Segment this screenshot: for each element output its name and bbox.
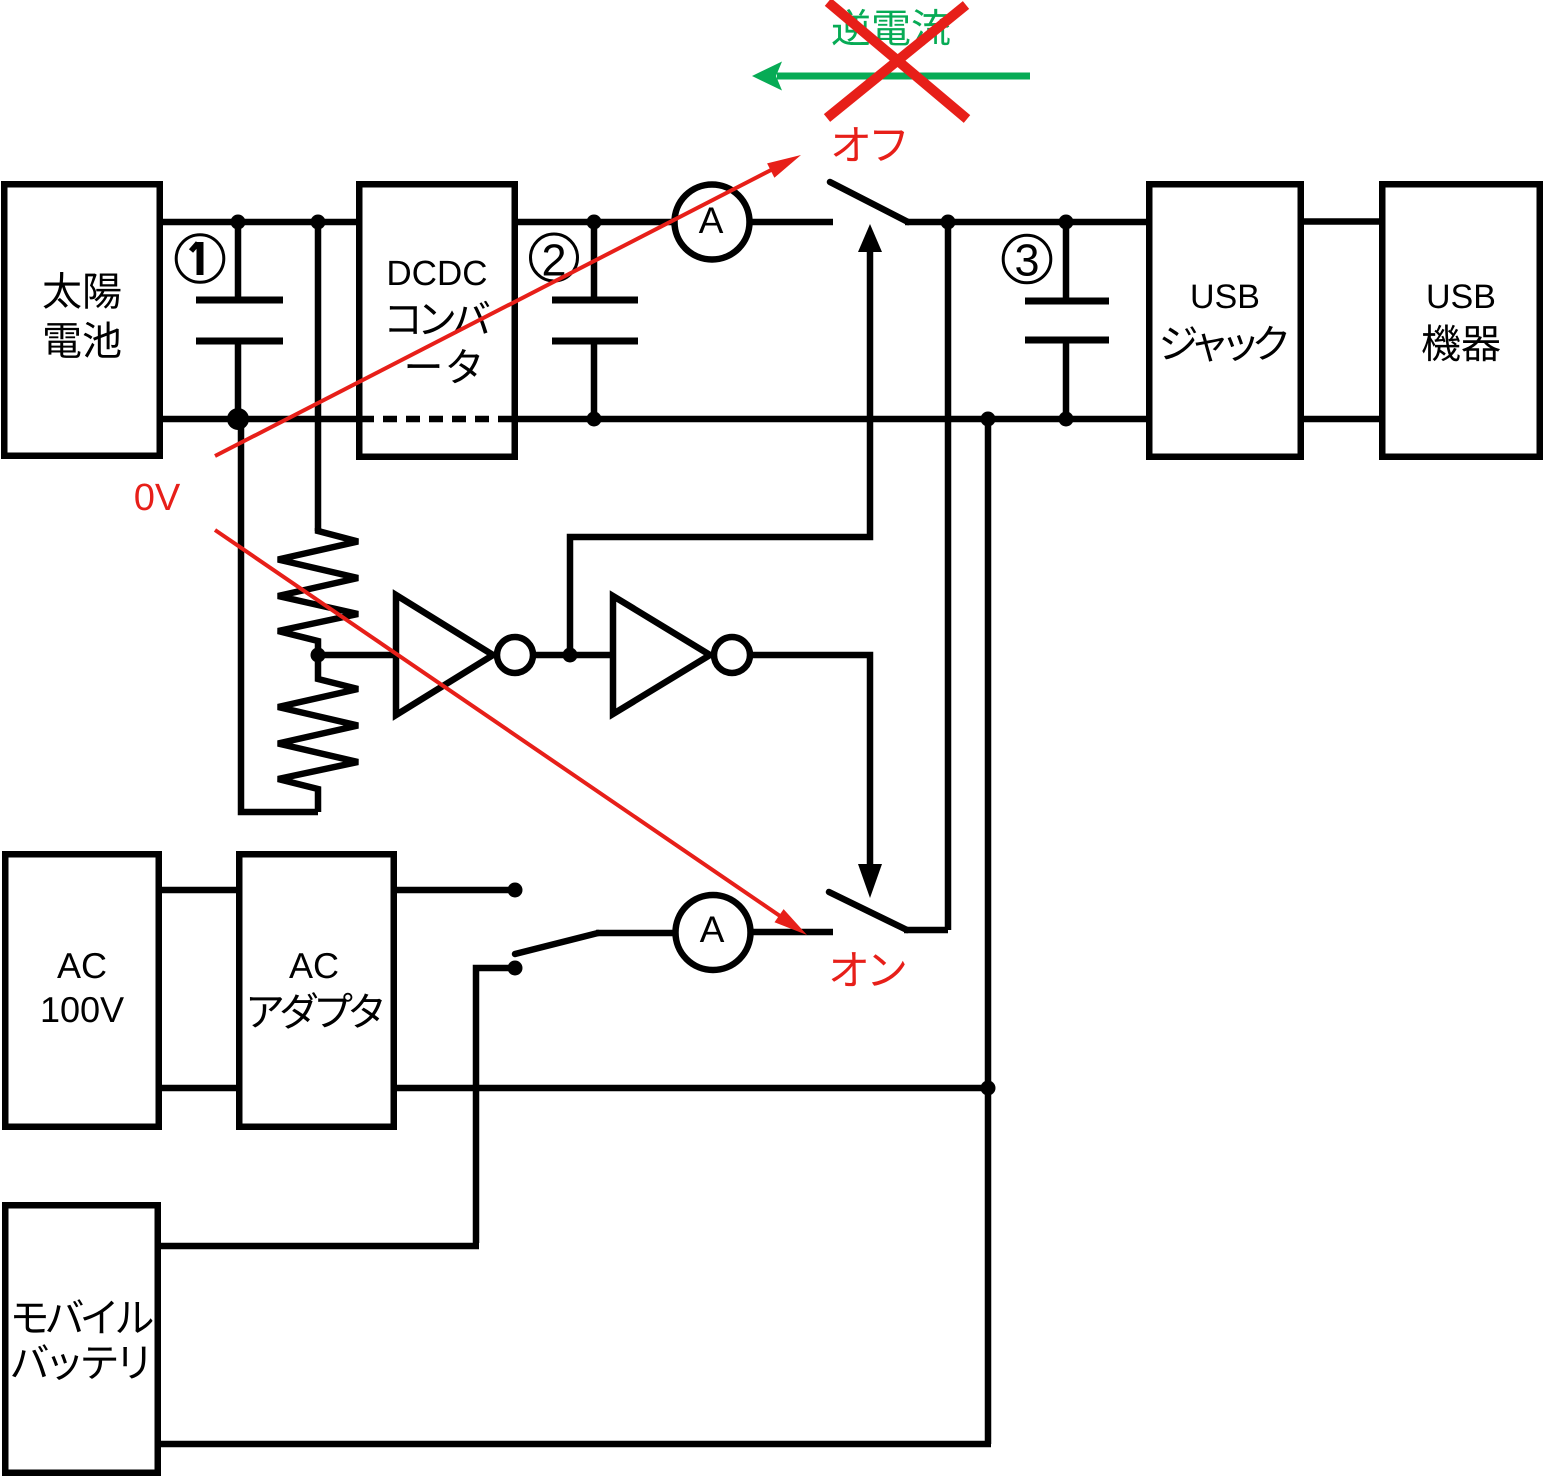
node: junction dots C1: [231, 215, 246, 230]
switch: adapter connect (closing) blade: [829, 892, 907, 930]
wire: ammeter to lower switch left terminal: [750, 929, 833, 936]
capacitor C2 stem bottom: [591, 339, 598, 422]
wire: USB jack to USB device top: [1301, 218, 1382, 225]
block: AC 100V: [5, 854, 159, 1127]
capacitor C1 stem bottom: [235, 339, 242, 422]
wire: resistor bottom return to ground bus: [241, 419, 318, 812]
block: solar cell 太陽電池: [4, 184, 160, 456]
arrow: 0V causes lower switch on (red): [215, 530, 780, 916]
wire: battery contact riser: [476, 968, 515, 1243]
ammeter A top: [675, 185, 750, 260]
wire: tap to inverter U1 input: [315, 652, 399, 659]
label: circled 1: [176, 235, 224, 283]
wire: solar to DCDC top: [160, 219, 360, 226]
wire: adapter bottom out to down-feed rail: [394, 1085, 991, 1092]
wire: ammeter to switch top: [749, 219, 833, 226]
node: divider tap: [311, 648, 326, 663]
wire: U2 output right and down to lower switch: [750, 655, 870, 868]
wire: selector to ammeter: [596, 930, 679, 937]
wire: AC adapter top out to contact: [394, 887, 515, 894]
inverter U1 triangle: [396, 595, 493, 715]
resistor R2 (lower): [278, 655, 358, 812]
node: contact A (adapter): [508, 883, 523, 898]
inverter U2 triangle: [613, 596, 710, 714]
capacitor C1 plates: [196, 297, 283, 304]
arrowhead: control push down on lower switch: [858, 864, 882, 898]
capacitor C1 stem top: [235, 219, 242, 303]
label: reverse current 逆電流 (green): [832, 9, 949, 46]
label: on オン (red): [832, 952, 905, 986]
inverter U2 bubble: [714, 637, 750, 673]
block: USB device USB機器: [1382, 184, 1540, 457]
wire: DCDC to USB jack bottom: [515, 416, 1149, 423]
label: circled 3: [1003, 235, 1051, 283]
capacitor C3 stem top: [1063, 219, 1070, 303]
block: mobile battery モバイルバッテリ: [5, 1205, 158, 1473]
inverter U1 bubble: [497, 637, 533, 673]
block: USB jack: [1149, 184, 1301, 457]
wire: U1 output to U2 input: [533, 652, 616, 659]
switch: output cutoff (open) blade: [830, 182, 908, 222]
wire: AC100V to adapter bottom: [158, 1085, 241, 1092]
ammeter A bottom: [676, 895, 751, 970]
resistor R1 (upper): [278, 528, 358, 655]
wire: bottom bus junction down to battery/adapter rail: [985, 419, 992, 1444]
node: U1 output junction: [563, 648, 578, 663]
arrow: 0V causes top switch off (red): [215, 168, 775, 456]
block: DCDC converter: [359, 184, 515, 457]
cross: red X over reverse current: [828, 2, 967, 119]
wire: solar to DCDC bottom: [160, 416, 360, 423]
wire: switch right terminal down to lower switch: [945, 222, 952, 930]
capacitor C3 plates: [1025, 298, 1109, 305]
arrowhead: control push up on top switch: [858, 224, 882, 252]
wire: dashed ground through DCDC: [360, 416, 515, 423]
wire: blade to vertical: [904, 927, 948, 934]
label: off オフ (red): [834, 127, 905, 161]
wire: DCDC to ammeter top: [515, 219, 676, 226]
wire: battery top out: [158, 1243, 479, 1250]
wire: AC100V to adapter top: [158, 887, 241, 894]
capacitor C2 plates: [552, 297, 638, 304]
label: 0V (red): [135, 483, 180, 510]
arrow: reverse current (green): [777, 73, 1030, 80]
capacitor C3 stem bottom: [1063, 338, 1070, 422]
node: contact B (battery): [508, 961, 523, 976]
wire: vertical to resistor divider: [315, 219, 322, 531]
wire: U1 output feedback up and right to top switch: [570, 248, 870, 655]
wire: battery bottom out: [158, 1441, 991, 1448]
wire: switch to USB jack top: [905, 219, 1149, 226]
block: AC adapter: [239, 854, 394, 1127]
label: circled 2: [531, 234, 578, 281]
switch: source selector blade: [515, 933, 598, 954]
wire: USB jack to USB device bottom: [1301, 416, 1382, 423]
capacitor C2 stem top: [591, 219, 598, 303]
